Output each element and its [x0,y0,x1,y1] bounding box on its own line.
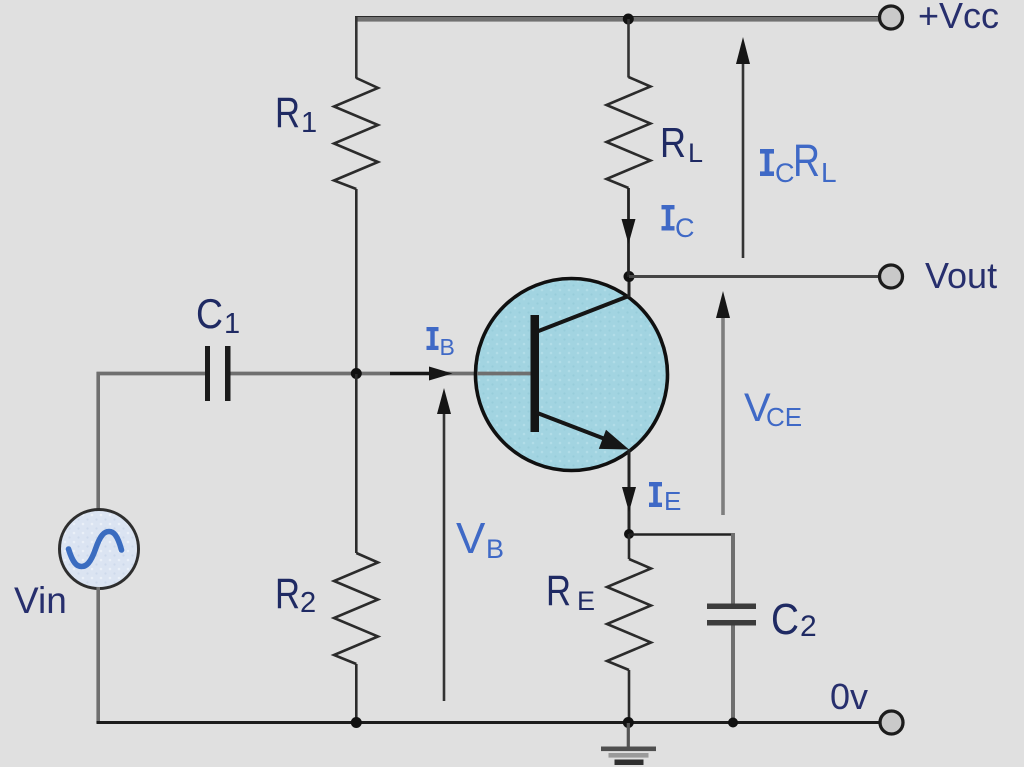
label R1 [275,89,317,139]
svg-text:L: L [821,157,837,188]
svg-text:B: B [486,534,504,564]
wire emitter vertical with IE arrow [622,449,636,534]
node supply rail junction [623,14,634,25]
wire R1 bottom vertical to base node [355,189,358,374]
transistor collector stroke [536,296,630,333]
label R2 [275,570,316,619]
transistor emitter stroke with arrow [536,413,629,450]
wire R2 bottom vertical [355,664,358,723]
resistor R2 [334,553,378,664]
svg-text:C: C [196,290,223,337]
resistor RE [607,559,651,670]
wire base inside transistor [477,372,531,376]
label RE [546,567,595,616]
ground symbol [601,723,656,765]
resistor R1 [334,78,378,189]
wire Vout horizontal [629,275,880,278]
wire top supply rail [355,16,880,22]
svg-text:R: R [793,135,820,186]
svg-text:R: R [546,567,571,615]
capacitor C2 [707,604,756,626]
svg-text:B: B [440,334,455,360]
arrow VB [437,388,451,701]
wire emitter node to C2 horizontal [629,533,735,536]
node R2 ground junction [351,717,362,728]
label C2 [771,595,817,644]
label IB [427,327,455,360]
capacitor C1 [205,346,231,401]
node emitter junction [624,529,634,539]
label C1 [196,290,240,340]
svg-text:1: 1 [224,308,240,340]
label RL [660,119,703,168]
terminal +Vcc [880,6,903,29]
transistor base bar [531,315,540,432]
svg-text:E: E [577,586,595,616]
svg-text:R: R [660,119,686,166]
svg-text:V: V [456,514,486,563]
wire RE bottom vertical [628,670,631,723]
terminal 0v [880,711,903,734]
wire Vin upper vertical [96,372,100,511]
wire C2 top vertical [731,533,735,604]
svg-text:C: C [775,158,795,188]
svg-text:2: 2 [800,610,817,643]
svg-text:C: C [675,213,695,243]
label VCE [744,386,802,432]
terminal Vout [880,265,903,288]
node RE ground junction [623,717,634,728]
label IC [662,205,695,243]
transistor Q1 body [476,279,668,471]
svg-text:E: E [664,486,681,516]
source Vin [60,510,139,589]
svg-text:Vout: Vout [925,255,997,296]
wire RL bottom vertical with IC arrow [622,188,636,277]
svg-text:R: R [275,570,300,618]
wire R2 top vertical [355,374,358,553]
resistor RL [607,77,651,188]
arrow VCE [716,291,730,515]
wire RE top vertical [628,534,631,559]
label IE [649,482,681,516]
arrow IC RL [736,37,750,258]
svg-text:Vin: Vin [14,580,67,621]
wire input horizontal (Vin to C1) [97,372,206,376]
wire R1 top vertical [355,17,358,79]
wire collector vertical [628,276,631,297]
wire C2 bottom vertical [731,626,735,724]
svg-text:+Vcc: +Vcc [918,0,999,36]
svg-text:R: R [275,89,300,137]
svg-text:C: C [771,595,799,644]
label VB [456,514,504,564]
label IC RL [760,135,837,188]
node collector junction [624,271,635,282]
arrow IB [390,367,453,381]
wire Vin lower vertical [96,587,100,723]
svg-text:1: 1 [301,107,317,139]
svg-text:L: L [688,138,703,168]
node base junction [351,368,362,379]
wire RL top vertical [627,19,630,78]
node C2 ground junction [728,718,738,728]
wire C1 to base of transistor [231,372,532,376]
svg-text:0v: 0v [830,676,868,717]
svg-text:2: 2 [300,587,316,619]
wire bottom ground rail [97,721,881,724]
svg-text:CE: CE [766,402,802,432]
